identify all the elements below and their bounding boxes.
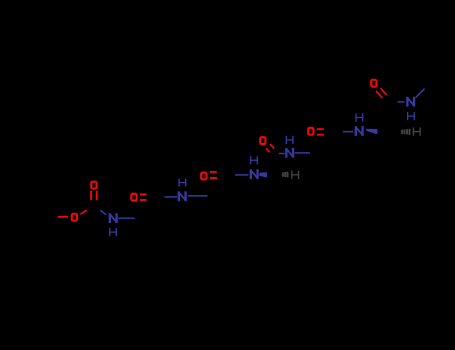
node O6: amide 4 C=O oxygen	[308, 128, 313, 135]
wire: bond N6-CH3 methyl, blue half	[416, 89, 425, 98]
wire: double bond C=O2 vertical, red halves	[91, 191, 97, 201]
wire: bond N1-CA1 alpha carbon, blue half	[118, 217, 134, 219]
wire: double bond O7=C diagonal, red	[376, 88, 387, 98]
node H on N6	[407, 112, 415, 120]
node N6: C-terminal amide nitrogen	[407, 97, 415, 106]
wire: stereo hash wedge CA3-H, gray half	[402, 129, 410, 135]
node N5: amide 4 nitrogen	[355, 127, 363, 136]
wire: stereo bold wedge N5-CA3, blue half	[366, 129, 377, 135]
node N4: amide 3 nitrogen	[286, 148, 294, 157]
node H stereo on CA3	[413, 127, 421, 135]
wire: double bond O3=C horizontal, red halves	[140, 194, 147, 200]
wire: double bond O6=C horizontal, red halves	[317, 129, 324, 135]
node H on N3	[250, 156, 258, 164]
node H on N4	[286, 136, 294, 144]
node H on N1	[109, 228, 117, 236]
wire: bond N2-CH2 glycine, blue half	[188, 195, 208, 197]
node H stereo on CA2	[291, 171, 299, 179]
wire: bond C3-N4, blue half	[279, 153, 285, 155]
node N2: amide 1 nitrogen	[178, 192, 186, 201]
node O5: amide 3 C=O oxygen	[260, 137, 265, 144]
node H on N5	[355, 113, 363, 121]
wire: double bond O5=C diagonal, red	[266, 144, 274, 152]
node N3: amide 2 nitrogen	[250, 170, 258, 179]
wire: bond C1-N2, blue half	[164, 196, 177, 198]
node N1: carbamate nitrogen	[109, 214, 117, 223]
wire: bond C5-N6, blue half	[398, 101, 405, 103]
wire: bond N4-CH2 glycine 2, blue half	[295, 152, 310, 154]
node H on N2	[178, 179, 186, 187]
node O4: amide 2 C=O oxygen	[201, 173, 206, 180]
node O1: ester oxygen of carbamate	[72, 214, 77, 221]
node O3: amide 1 C=O oxygen	[131, 194, 136, 201]
wire: bond C(tBu)-O ester, red half	[58, 216, 68, 218]
node O2: carbamate C=O oxygen	[91, 182, 96, 189]
wire: stereo hash wedge CA2-H, gray half	[283, 172, 288, 178]
wire: bond O1-C carbamate, red half	[80, 210, 87, 214]
wire: double bond O4=C horizontal, red halves	[210, 172, 217, 178]
wire: bond C4-N5, blue half	[343, 131, 353, 133]
node O7: C-terminal amide C=O oxygen	[371, 80, 376, 87]
wire: bond C2-N3, blue half	[235, 174, 248, 176]
wire: stereo bold wedge N3-CA2, blue half	[259, 172, 267, 177]
wire: bond C carbamate-N1, blue half	[100, 210, 106, 215]
